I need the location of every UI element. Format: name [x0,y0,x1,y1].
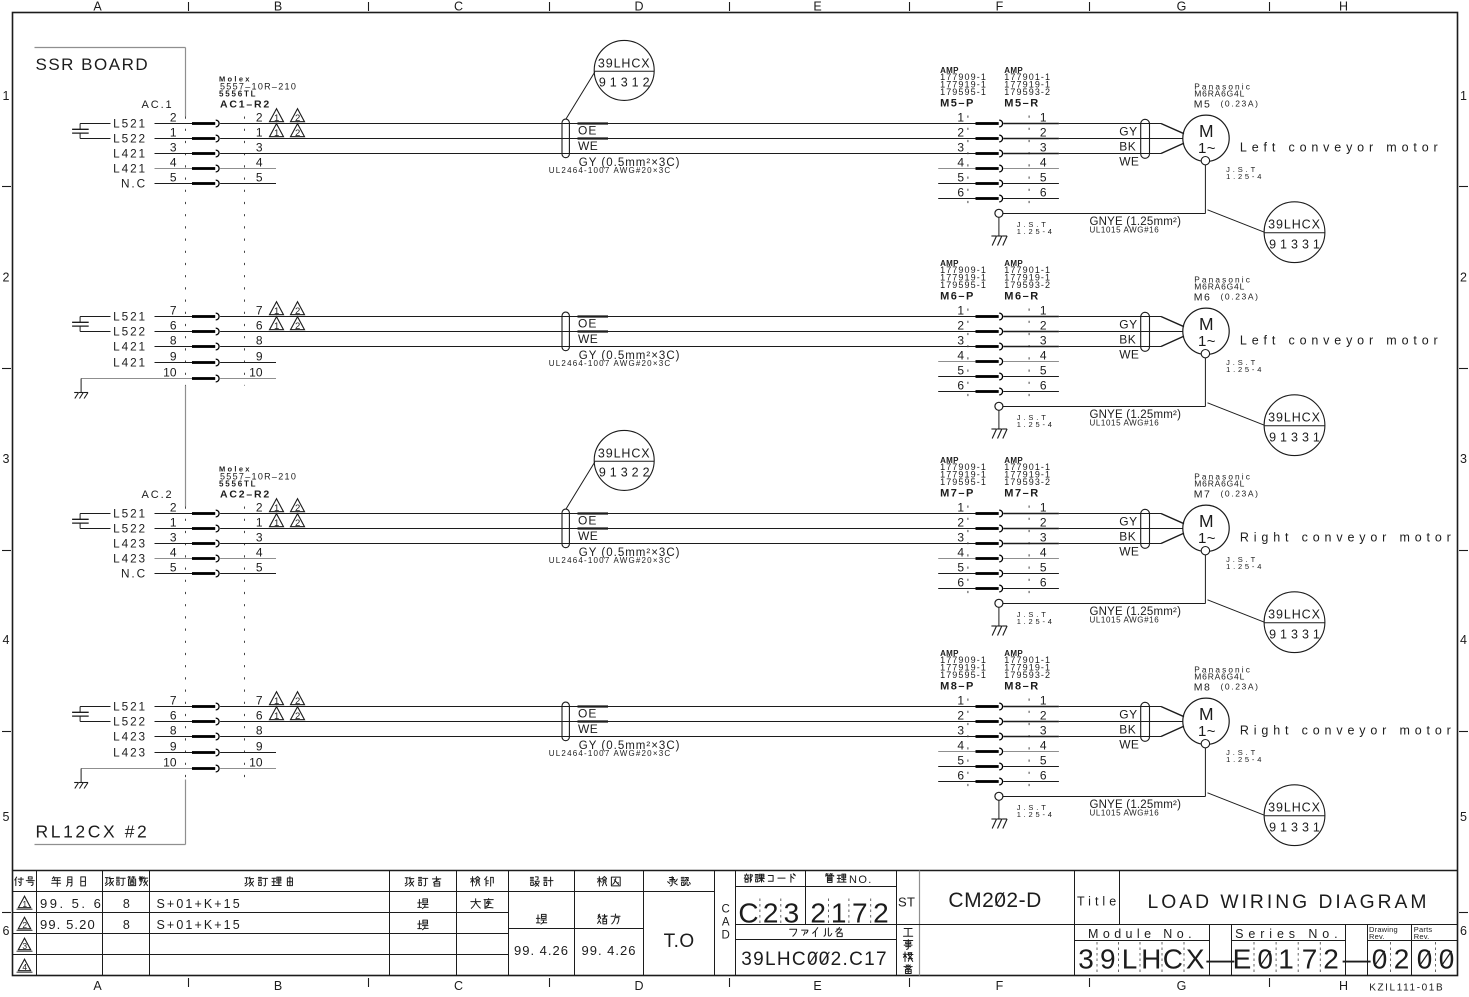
svg-text:Title: Title [1077,894,1120,908]
revision triangle 2 [291,707,305,720]
connector M7-P/M7-R housing (dashed) [967,506,969,597]
wire L421 to M5 pin 4 [155,168,193,170]
wire GY to motor [1003,316,1059,318]
svg-text:6: 6 [256,318,263,332]
svg-text:1: 1 [274,518,279,529]
connector AC-R2 pin 10 [163,365,263,382]
svg-text:M8–P: M8–P [940,680,975,692]
svg-text:5: 5 [957,753,964,767]
wire pin 7 run [220,706,975,708]
connector M6 pin 3 [957,333,1047,350]
svg-text:9: 9 [256,739,263,753]
svg-text:1: 1 [3,89,10,103]
ground lug circle [995,402,1003,410]
capacitor across L521/L522 [72,707,110,722]
motor M6 (Left/Right conveyor) [1183,308,1229,354]
wire label WE [578,332,609,346]
leader line [566,72,595,119]
svg-text:Rev.: Rev. [1369,932,1385,941]
svg-text:3: 3 [1040,530,1047,544]
revision triangle rows [18,896,30,908]
svg-text:1: 1 [274,113,279,124]
connector AC2-R2 pin 2 [170,500,263,517]
svg-text:BK: BK [1119,529,1136,543]
svg-text:OE: OE [578,124,597,138]
svg-text:1: 1 [957,303,964,317]
svg-text:L421: L421 [113,356,147,370]
svg-text:L522: L522 [113,715,147,729]
svg-text:F: F [996,0,1004,14]
svg-text:3: 3 [1040,723,1047,737]
svg-text:1.25-4: 1.25-4 [1226,755,1264,764]
wire M7-R pin 4 stub [1003,558,1059,560]
SSR BOARD outline [35,48,186,845]
svg-text:4: 4 [957,738,964,752]
svg-text:1: 1 [256,125,263,139]
wire M6-R pin 5 stub [1003,376,1059,378]
svg-text:39LHCX: 39LHCX [1268,608,1321,622]
cable marker (motor cable) [1141,119,1150,158]
svg-text:3: 3 [256,530,263,544]
connector M5 pin 1 [957,110,1047,127]
svg-text:ST: ST [898,895,915,910]
svg-text:M6–R: M6–R [1004,290,1039,302]
svg-text:5556TL: 5556TL [219,480,257,489]
svg-text:C: C [722,904,730,916]
svg-text:2: 2 [1040,318,1047,332]
label J.S.T 1.25-4 (motor) [1226,358,1264,374]
wire L421 to M6 pin 8 [155,346,193,348]
svg-text:WE: WE [1119,737,1139,751]
svg-text:M: M [1199,511,1214,531]
svg-text:UL1015 AWG#16: UL1015 AWG#16 [1090,809,1160,818]
svg-text:2: 2 [1323,944,1339,975]
svg-text:1~: 1~ [1198,530,1216,547]
svg-text:4: 4 [256,545,263,559]
wire M7-P pin 4 stub [938,558,975,560]
cable marker (motor cable) [1141,312,1150,351]
revision triangle 1 [270,499,284,512]
svg-text:4: 4 [22,962,27,972]
connector AC-R2 pin 8 [170,333,263,350]
svg-text:4: 4 [256,155,263,169]
svg-text:1.25-4: 1.25-4 [1226,172,1264,181]
wire M8-R pin 6 stub [1003,781,1059,783]
svg-text:AC1–R2: AC1–R2 [220,99,271,111]
balloon 39LHCX 91312 [566,40,654,119]
wire L521 to M5 pin 2 [155,123,193,125]
cable marker (motor cable) [1141,702,1150,741]
svg-text:6: 6 [256,708,263,722]
svg-text:6: 6 [3,924,10,938]
connector AC1-R2 pin 4 [170,155,263,172]
cable marker (3C cable) [562,312,569,351]
wire pin 9 stub [220,752,276,754]
svg-text:179595-1: 179595-1 [940,670,987,680]
wire label OE [578,124,609,138]
svg-text:179593-2: 179593-2 [1004,280,1051,290]
svg-text:M8–R: M8–R [1004,680,1039,692]
svg-text:N.C: N.C [121,177,147,191]
svg-text:6: 6 [1040,378,1047,392]
svg-text:2: 2 [1394,944,1410,975]
svg-text:N.C: N.C [121,567,147,581]
svg-text:M5: M5 [1194,98,1212,110]
balloon 39LHCX 91331 [1264,592,1325,653]
svg-text:OE: OE [578,707,597,721]
svg-text:99. 5.20: 99. 5.20 [40,917,96,932]
wire pin 5 stub [220,573,276,575]
connector M7 pin 4 [957,545,1047,562]
svg-text:10: 10 [163,755,177,769]
wire M5-P pin 5 stub [938,183,975,185]
svg-text:WE: WE [578,139,598,153]
wire M8-P pin 4 stub [938,751,975,753]
svg-text:BK: BK [1119,722,1136,736]
svg-text:WE: WE [1119,154,1139,168]
svg-text:39LHCX: 39LHCX [598,446,651,460]
connector AC2-R2 pin 4 [170,545,263,562]
connector M8-P/M8-R housing (dashed) [967,699,969,790]
connector M8 pin 3 [957,723,1047,740]
wire pin 6 run [220,721,975,723]
connector AC-R2 pin 9 [170,739,263,756]
balloon 39LHCX 91331 [1264,202,1325,263]
connector label AMP M7-P [940,456,987,499]
balloon 39LHCX 91331 [1264,785,1325,846]
svg-text:UL1015 AWG#16: UL1015 AWG#16 [1090,616,1160,625]
wire label GY [1119,707,1138,721]
connector M5 pin 5 [957,170,1047,187]
svg-text:B: B [274,0,282,14]
leader line [566,462,595,509]
revision triangle 1 [270,707,284,720]
wire M6-R pin 6 stub [1003,391,1059,393]
svg-text:2: 2 [1040,515,1047,529]
connector M7 pin 6 [957,575,1047,592]
svg-text:179593-2: 179593-2 [1004,477,1051,487]
svg-text:L423: L423 [113,746,147,760]
motor ground terminal [1201,350,1209,358]
svg-text:D: D [634,979,643,992]
svg-text:UL2464-1007 AWG#20×3C: UL2464-1007 AWG#20×3C [549,556,672,565]
connector M6-P/M6-R housing (dashed) [967,309,969,400]
svg-text:UL2464-1007 AWG#20×3C: UL2464-1007 AWG#20×3C [549,749,672,758]
svg-text:99. 4.26: 99. 4.26 [582,943,637,958]
ground [991,410,1007,438]
svg-text:5: 5 [1040,560,1047,574]
connector AC-R2 pin 7 [170,303,263,320]
svg-text:S+01+K+15: S+01+K+15 [157,918,242,932]
svg-text:M6–P: M6–P [940,290,975,302]
svg-text:1: 1 [256,515,263,529]
wire L521 to M6 pin 7 [155,316,193,318]
svg-text:6: 6 [957,575,964,589]
cable marker (3C cable) [562,702,569,741]
svg-text:Left conveyor motor: Left conveyor motor [1240,333,1443,347]
connector label AMP M8-R [1004,649,1051,692]
svg-text:GY: GY [1119,514,1138,528]
svg-text:2: 2 [957,125,964,139]
svg-text:2: 2 [873,898,889,929]
svg-text:L522: L522 [113,325,147,339]
connector label AMP M6-P [940,259,987,302]
wire pin 10 stub [220,768,276,770]
ground [74,782,78,784]
wire pin 4 stub [220,168,276,170]
svg-text:1.25-4: 1.25-4 [1017,617,1055,626]
label J.S.T 1.25-4 (motor) [1226,748,1264,764]
svg-text:—: — [1343,944,1371,975]
svg-text:—: — [1206,944,1234,975]
connector label AMP M5-P [940,66,987,109]
svg-text:2: 2 [170,110,177,124]
ground lug circle [995,599,1003,607]
svg-text:H: H [1339,979,1348,992]
wire pin 2 run [220,513,975,515]
svg-text:M6RA6G4L: M6RA6G4L [1194,672,1245,682]
svg-text:A: A [93,979,102,992]
svg-text:UL1015 AWG#16: UL1015 AWG#16 [1090,226,1160,235]
cable label GNYE (1.25mm2) [1090,409,1182,428]
svg-text:1: 1 [957,500,964,514]
wire label GY [1119,317,1138,331]
svg-text:CM202-D: CM202-D [948,889,1041,912]
motor label Panasonic M7 [1194,472,1260,501]
svg-text:L521: L521 [113,117,147,131]
wire label BK [1119,529,1136,543]
svg-text:C: C [738,898,758,929]
svg-text:8: 8 [123,897,130,911]
svg-text:1: 1 [274,306,279,317]
svg-text:L522: L522 [113,522,147,536]
wire BK to motor [1003,528,1059,530]
wire label OE [578,514,609,528]
connector M8 pin 6 [957,768,1047,785]
svg-text:2: 2 [295,128,300,139]
svg-text:2: 2 [1040,708,1047,722]
connector label AMP M5-R [1004,66,1051,109]
svg-text:UL2464-1007 AWG#20×3C: UL2464-1007 AWG#20×3C [549,166,672,175]
svg-text:A: A [93,0,102,14]
svg-text:1.25-4: 1.25-4 [1017,227,1055,236]
svg-text:2: 2 [295,306,300,317]
revision triangle 1 [270,692,284,705]
revision triangle 1 [270,302,284,315]
svg-text:7: 7 [256,693,263,707]
wire pin 7 run [220,316,975,318]
svg-text:UL2464-1007 AWG#20×3C: UL2464-1007 AWG#20×3C [549,359,672,368]
svg-text:9: 9 [256,349,263,363]
label J.S.T 1.25-4 (ground) [1017,220,1055,236]
connector M5 pin 3 [957,140,1047,157]
svg-text:OE: OE [578,514,597,528]
svg-text:1: 1 [1278,944,1294,975]
svg-text:3: 3 [1078,944,1094,975]
svg-text:3: 3 [170,140,177,154]
wire M6-P pin 4 stub [938,361,975,363]
svg-text:39LHCX: 39LHCX [1268,411,1321,425]
wire N.C to M7 pin 5 [155,573,193,575]
svg-text:1: 1 [1040,693,1047,707]
svg-text:M8: M8 [1194,681,1212,693]
svg-text:3: 3 [170,530,177,544]
svg-text:(0.23A): (0.23A) [1221,291,1260,301]
wire M5-P pin 6 stub [938,198,975,200]
svg-text:E: E [813,0,821,14]
svg-text:M5–P: M5–P [940,97,975,109]
wire BK to motor [1003,331,1059,333]
connector AC1-R2 housing (dashed) [185,117,187,386]
svg-text:2: 2 [1460,271,1467,285]
svg-text:1.25-4: 1.25-4 [1226,562,1264,571]
wire label BK [1119,332,1136,346]
svg-text:2: 2 [295,113,300,124]
ground [74,392,78,394]
revision triangle 1 [270,109,284,122]
connector M6 pin 2 [957,318,1047,335]
svg-text:1: 1 [957,693,964,707]
svg-text:1~: 1~ [1198,333,1216,350]
motor ground terminal [1201,740,1209,748]
svg-text:6: 6 [957,768,964,782]
svg-text:3: 3 [3,452,10,466]
svg-text:G: G [1177,0,1187,14]
svg-text:7: 7 [170,693,177,707]
wire label BK [1119,139,1136,153]
svg-text:6: 6 [957,378,964,392]
svg-text:4: 4 [957,155,964,169]
svg-text:5: 5 [170,560,177,574]
connector AC-R2 pin 6 [170,708,263,725]
svg-text:C: C [1163,944,1183,975]
svg-text:4: 4 [1040,738,1047,752]
svg-text:39LHC002.C17: 39LHC002.C17 [741,949,888,970]
svg-text:L421: L421 [113,162,147,176]
connector M6 pin 5 [957,363,1047,380]
svg-text:2: 2 [170,500,177,514]
wire L521 to M7 pin 2 [155,513,193,515]
svg-text:2: 2 [295,696,300,707]
balloon 39LHCX 91322 [566,430,654,509]
svg-text:2: 2 [810,898,826,929]
svg-text:4: 4 [1460,633,1467,647]
wire M6-P pin 6 stub [938,391,975,393]
leader line [1208,600,1265,622]
wire pin 10 stub [220,378,276,380]
svg-text:L423: L423 [113,537,147,551]
wire label OE [578,707,609,721]
leader line [1208,793,1265,815]
svg-text:SSR BOARD: SSR BOARD [36,55,150,74]
svg-text:1: 1 [274,696,279,707]
wire L423 to M7 pin 3 [155,543,193,545]
svg-text:H: H [1141,944,1161,975]
svg-text:2: 2 [256,500,263,514]
svg-text:M7–R: M7–R [1004,487,1039,499]
svg-text:7: 7 [256,303,263,317]
revision triangle 1 [270,317,284,330]
svg-text:KZIL111-01B: KZIL111-01B [1369,983,1444,993]
svg-text:T.O: T.O [664,931,695,952]
capacitor across L521/L522 [72,514,110,529]
svg-text:9: 9 [1100,944,1116,975]
svg-text:L423: L423 [113,552,147,566]
wire L423 to M7 pin 4 [155,558,193,560]
svg-text:8: 8 [256,333,263,347]
wire label WE [578,529,609,543]
cable marker (3C cable) [562,509,569,548]
wire L421 to M6 pin 9 [155,362,193,364]
svg-text:Rev.: Rev. [1414,932,1430,941]
svg-text:1.25-4: 1.25-4 [1226,365,1264,374]
svg-text:3: 3 [1040,333,1047,347]
wire BK to motor [1003,721,1059,723]
svg-text:B: B [274,979,282,992]
ground [991,607,1007,635]
wire M6-R pin 4 stub [1003,361,1059,363]
svg-text:1: 1 [957,110,964,124]
connector AC2-R2 housing (dashed) [185,507,187,780]
wire label GY [1119,514,1138,528]
svg-text:6: 6 [1460,924,1467,938]
leader line [1208,210,1265,232]
wire N.C to M5 pin 5 [155,183,193,185]
connector AC-R2 pin 8 [170,723,263,740]
svg-text:LOAD WIRING DIAGRAM: LOAD WIRING DIAGRAM [1148,892,1430,913]
svg-text:6: 6 [170,708,177,722]
motor label Panasonic M5 [1194,82,1260,111]
wire pin 2 run [220,123,975,125]
svg-text:9: 9 [170,349,177,363]
wire L421 to M5 pin 3 [155,153,193,155]
wire pin 5 stub [220,183,276,185]
svg-text:5: 5 [1460,810,1467,824]
svg-text:2: 2 [957,708,964,722]
svg-text:4: 4 [1040,155,1047,169]
wire L522 to M5 pin 1 [155,138,193,140]
svg-text:5: 5 [1040,170,1047,184]
svg-text:3: 3 [1040,140,1047,154]
leader line [1208,403,1265,425]
revision triangle 2 [291,317,305,330]
svg-text:BK: BK [1119,332,1136,346]
wire GY to motor [1003,513,1059,515]
svg-text:2: 2 [763,898,779,929]
svg-text:39LHCX: 39LHCX [1268,801,1321,815]
connector M5 pin 2 [957,125,1047,142]
wire pin 10 to ground [81,768,192,770]
svg-text:NO.: NO. [849,874,873,886]
wire pin 4 stub [220,558,276,560]
svg-text:WE: WE [1119,347,1139,361]
svg-text:M6RA6G4L: M6RA6G4L [1194,89,1245,99]
svg-text:L521: L521 [113,507,147,521]
svg-text:UL1015 AWG#16: UL1015 AWG#16 [1090,419,1160,428]
svg-text:3: 3 [1460,452,1467,466]
connector M8 pin 4 [957,738,1047,755]
svg-text:4: 4 [957,348,964,362]
connector M8 pin 5 [957,753,1047,770]
svg-text:WE: WE [578,722,598,736]
connector AC-R2 pin 7 [170,693,263,710]
wire GNYE ground [1003,165,1206,214]
svg-text:1: 1 [1460,89,1467,103]
connector M5 pin 6 [957,185,1047,202]
wire pin 8 run [220,736,975,738]
svg-text:(0.23A): (0.23A) [1221,98,1260,108]
svg-text:1: 1 [1040,303,1047,317]
